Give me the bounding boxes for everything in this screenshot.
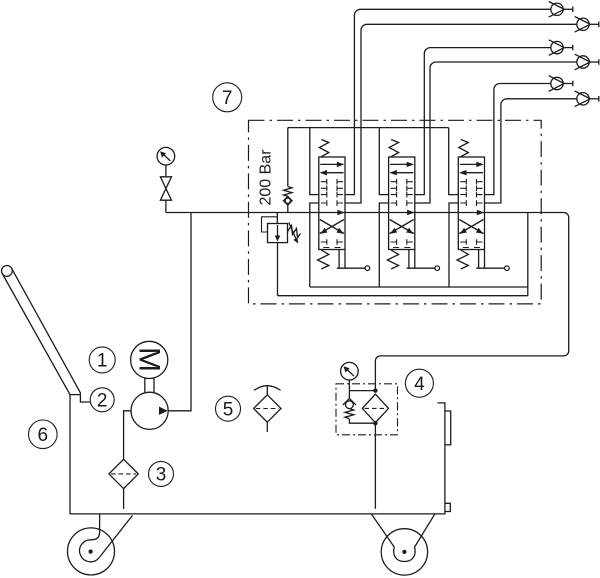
wire riser A2 (valve2 port A to QC3) xyxy=(415,48,551,195)
wire section 1 lower frame xyxy=(310,203,319,287)
wire riser A1 (valve1 port A to QC1) xyxy=(345,9,551,194)
pressure gauge G1 xyxy=(157,147,175,176)
wire suction line xyxy=(124,411,131,460)
item label 5 xyxy=(216,396,241,421)
wire suction pipe in tank xyxy=(123,489,125,509)
wire return line to filter xyxy=(375,213,568,391)
item label 7 xyxy=(213,83,242,112)
svg-text:5: 5 xyxy=(223,400,234,421)
directional valve DV1 xyxy=(318,140,370,271)
node J1 xyxy=(373,388,377,392)
svg-text:7: 7 xyxy=(222,88,233,109)
caster wheel left xyxy=(68,514,133,575)
suction filter F1 (item 3) xyxy=(109,459,138,488)
wire return pipe in tank xyxy=(374,423,376,509)
wire section 2 upper frame xyxy=(379,128,388,195)
wire riser B1 (valve1 port B to QC2) xyxy=(345,24,577,203)
tank side tab lower xyxy=(445,503,450,511)
handlebar xyxy=(2,266,92,403)
electric motor M1 xyxy=(131,341,168,378)
quick coupling QC1 xyxy=(549,2,573,18)
node J2 xyxy=(373,421,377,425)
svg-text:M: M xyxy=(132,347,165,372)
wire section 3 upper frame xyxy=(449,128,459,195)
caster wheel right xyxy=(372,514,435,575)
wire pump pressure riser xyxy=(168,213,191,411)
svg-text:3: 3 xyxy=(156,465,167,486)
svg-text:2: 2 xyxy=(97,391,108,412)
svg-text:1: 1 xyxy=(97,351,108,372)
return filter F3 xyxy=(362,394,388,423)
wire relief drain xyxy=(277,243,279,296)
quick coupling QC4 xyxy=(575,54,599,70)
directional valve DV3 xyxy=(457,140,509,271)
item label 4 xyxy=(405,369,433,397)
return filter unit boundary (item 4, dash-dot) xyxy=(336,384,398,435)
hydraulic pump P1 xyxy=(131,392,168,429)
wire filter bypass branch top xyxy=(349,390,375,392)
motor-pump shaft xyxy=(145,378,154,392)
wire riser B2 (valve2 port B to QC4) xyxy=(415,62,577,203)
wire section 3 lower frame xyxy=(449,203,458,287)
pressure gauge G2 xyxy=(341,362,359,390)
quick coupling QC3 xyxy=(549,40,573,56)
directional valve DV2 xyxy=(387,140,439,271)
quick coupling QC2 xyxy=(575,17,599,33)
wire right drop (P to gallery) xyxy=(527,213,529,296)
check valve CV1 (ball in seat) xyxy=(284,196,293,212)
wire riser B3 (valve3 port B to QC6) xyxy=(485,99,577,203)
svg-text:200 Bar: 200 Bar xyxy=(257,149,274,206)
item label 3 xyxy=(149,461,174,486)
tank side tab upper xyxy=(445,411,451,445)
valve block enclosure (item 7 boundary, dash-dot) xyxy=(249,120,542,304)
item label 2 xyxy=(90,388,114,412)
wire section 1 upper frame xyxy=(310,128,319,195)
air breather F2 (item 5) xyxy=(254,385,281,432)
wire P supply line xyxy=(166,212,564,214)
item label 1 xyxy=(89,347,115,373)
check valve CV1 (spring) xyxy=(284,128,292,197)
quick coupling QC5 xyxy=(549,76,573,92)
bypass check valve CV2 xyxy=(343,391,376,424)
wire riser A3 (valve3 port A to QC5) xyxy=(485,84,551,195)
relief valve RV1 xyxy=(262,213,301,244)
wire top gallery xyxy=(288,127,449,129)
wire section 2 lower frame xyxy=(379,203,388,287)
svg-text:6: 6 xyxy=(38,425,49,446)
item label 6 xyxy=(29,420,58,449)
shut-off valve SV1 xyxy=(160,177,171,213)
tank / trolley frame (item 6) xyxy=(70,395,445,514)
svg-text:4: 4 xyxy=(414,374,425,395)
wire sections bottom line xyxy=(310,286,528,288)
wire tank gallery xyxy=(278,295,528,297)
quick coupling QC6 xyxy=(575,91,599,107)
